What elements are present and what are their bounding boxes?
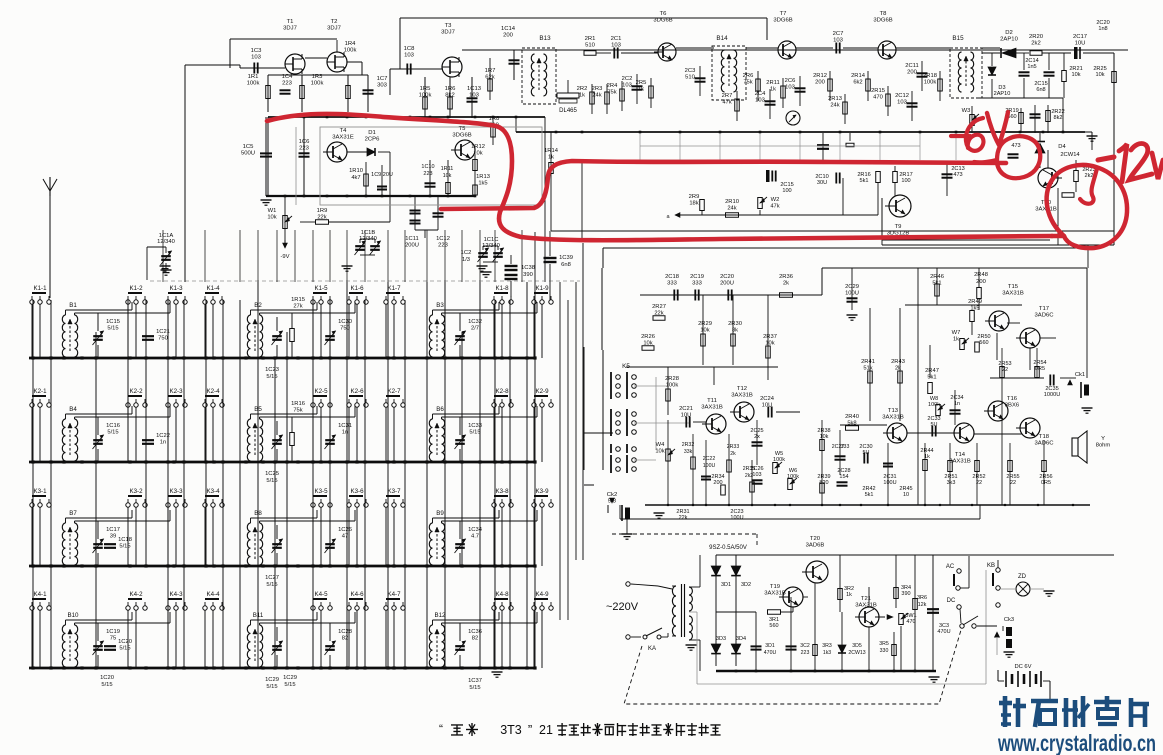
svg-text:K2-1: K2-1 xyxy=(33,388,47,395)
svg-text:-9V: -9V xyxy=(280,254,289,260)
svg-text:3D1: 3D1 xyxy=(765,643,775,649)
svg-text:T3: T3 xyxy=(445,23,453,29)
svg-text:2R56: 2R56 xyxy=(1039,474,1052,480)
svg-text:2C20: 2C20 xyxy=(1096,20,1109,26)
svg-text:K4-5: K4-5 xyxy=(314,591,328,598)
svg-text:2C15: 2C15 xyxy=(780,182,793,188)
svg-text:1C12: 1C12 xyxy=(436,236,450,242)
svg-text:K4-8: K4-8 xyxy=(495,591,509,598)
svg-text:2R39: 2R39 xyxy=(817,474,830,480)
svg-text:5k1: 5k1 xyxy=(865,492,874,498)
svg-text:2R2: 2R2 xyxy=(577,86,588,92)
svg-text:3D3: 3D3 xyxy=(716,636,726,642)
svg-text:T21: T21 xyxy=(861,596,871,602)
svg-text:2R11: 2R11 xyxy=(766,80,779,86)
svg-text:2R10: 2R10 xyxy=(725,199,739,205)
svg-text:KA: KA xyxy=(648,646,656,652)
svg-text:3AX31B: 3AX31B xyxy=(701,405,723,411)
svg-text:27k: 27k xyxy=(293,303,302,309)
svg-text:333: 333 xyxy=(692,280,702,286)
svg-text:D2: D2 xyxy=(1005,30,1013,36)
svg-text:1R10: 1R10 xyxy=(349,168,363,174)
svg-text:1R15: 1R15 xyxy=(291,297,305,303)
svg-text:1C29: 1C29 xyxy=(265,677,279,683)
svg-text:1C22: 1C22 xyxy=(156,433,170,439)
svg-text:5/15: 5/15 xyxy=(266,582,277,588)
svg-text:470: 470 xyxy=(873,94,883,100)
svg-text:T14: T14 xyxy=(955,452,966,458)
svg-text:1C5: 1C5 xyxy=(243,144,255,150)
svg-text:3AX31B: 3AX31B xyxy=(731,393,753,399)
svg-text:1C26: 1C26 xyxy=(338,527,352,533)
svg-text:510: 510 xyxy=(685,74,695,80)
svg-text:82: 82 xyxy=(472,635,478,641)
svg-text:K3-8: K3-8 xyxy=(495,488,509,495)
svg-text:T12: T12 xyxy=(737,386,747,392)
svg-text:K3-3: K3-3 xyxy=(169,488,183,495)
svg-text:D4: D4 xyxy=(1058,144,1066,150)
svg-text:6n8: 6n8 xyxy=(1036,87,1045,93)
svg-text:K1-3: K1-3 xyxy=(169,285,183,292)
svg-text:www.crystalradio.cn: www.crystalradio.cn xyxy=(997,730,1156,755)
svg-text:K2-5: K2-5 xyxy=(314,388,328,395)
svg-text:2R48: 2R48 xyxy=(974,272,988,278)
svg-text:2R27: 2R27 xyxy=(652,304,666,310)
svg-text:103: 103 xyxy=(404,53,415,59)
svg-text:2C33: 2C33 xyxy=(927,416,940,422)
svg-text:560: 560 xyxy=(979,340,988,346)
svg-text:2C11: 2C11 xyxy=(905,63,918,69)
svg-text:18k: 18k xyxy=(689,200,698,206)
svg-text:1R12: 1R12 xyxy=(471,144,485,150)
svg-text:22: 22 xyxy=(1010,480,1016,486)
svg-text:330: 330 xyxy=(880,648,889,654)
svg-text:1k: 1k xyxy=(846,592,852,598)
svg-text:1C16: 1C16 xyxy=(106,423,120,429)
svg-text:K2-7: K2-7 xyxy=(387,388,401,395)
svg-text:1C20: 1C20 xyxy=(100,675,114,681)
svg-text:1C21: 1C21 xyxy=(156,329,170,335)
svg-text:750: 750 xyxy=(158,335,168,341)
svg-text:2R17: 2R17 xyxy=(899,172,912,178)
svg-text:3R5: 3R5 xyxy=(879,641,889,647)
svg-text:2C35: 2C35 xyxy=(1045,386,1058,392)
svg-text:2R40: 2R40 xyxy=(845,414,859,420)
svg-text:2R42: 2R42 xyxy=(862,486,875,492)
svg-text:K2-3: K2-3 xyxy=(169,388,183,395)
svg-text:3R6: 3R6 xyxy=(917,595,927,601)
svg-text:2C3: 2C3 xyxy=(685,68,696,74)
svg-text:333: 333 xyxy=(667,280,677,286)
svg-text:K2-8: K2-8 xyxy=(495,388,509,395)
svg-text:8ohm: 8ohm xyxy=(1096,442,1111,448)
svg-text:100k: 100k xyxy=(924,79,937,85)
svg-text:2R5: 2R5 xyxy=(636,80,647,86)
svg-text:470U: 470U xyxy=(937,629,950,635)
svg-text:33k: 33k xyxy=(684,449,693,455)
svg-text:“: “ xyxy=(439,722,443,736)
svg-text:103: 103 xyxy=(785,84,795,90)
svg-text:1C7: 1C7 xyxy=(377,76,388,82)
svg-text:100U: 100U xyxy=(730,515,743,521)
svg-text:3AX31B: 3AX31B xyxy=(882,415,904,421)
svg-text:K3-7: K3-7 xyxy=(387,488,401,495)
svg-text:390: 390 xyxy=(523,272,533,278)
svg-text:2R45: 2R45 xyxy=(899,486,912,492)
svg-text:1C39: 1C39 xyxy=(559,255,573,261)
svg-text:2C13: 2C13 xyxy=(951,166,964,172)
svg-text:3R3: 3R3 xyxy=(822,643,832,649)
svg-text:2C2: 2C2 xyxy=(622,76,633,82)
svg-text:2R14: 2R14 xyxy=(851,73,866,79)
svg-text:3AX31B: 3AX31B xyxy=(855,603,877,609)
svg-text:Ck3: Ck3 xyxy=(1004,617,1014,623)
svg-text:2R29: 2R29 xyxy=(698,321,712,327)
svg-text:3DG6B: 3DG6B xyxy=(773,18,792,24)
svg-text:5/15: 5/15 xyxy=(107,429,118,435)
svg-text:K4-7: K4-7 xyxy=(387,591,401,598)
svg-text:1R4: 1R4 xyxy=(345,41,357,47)
svg-text:T20: T20 xyxy=(810,536,821,542)
svg-text:K3-6: K3-6 xyxy=(350,488,364,495)
svg-text:5k1: 5k1 xyxy=(927,374,936,380)
svg-text:100k: 100k xyxy=(928,402,940,408)
svg-text:103: 103 xyxy=(833,38,844,44)
svg-text:1C23: 1C23 xyxy=(265,367,279,373)
svg-text:1C28: 1C28 xyxy=(338,629,352,635)
svg-text:B8: B8 xyxy=(254,510,262,517)
svg-text:75k: 75k xyxy=(293,407,302,413)
svg-text:3BX6: 3BX6 xyxy=(1005,403,1020,409)
svg-text:K4-3: K4-3 xyxy=(169,591,183,598)
svg-text:3DJ7: 3DJ7 xyxy=(327,26,341,32)
svg-text:5/15: 5/15 xyxy=(284,682,295,688)
svg-text:22k: 22k xyxy=(679,515,688,521)
svg-text:D1: D1 xyxy=(368,130,376,136)
svg-text:2R43: 2R43 xyxy=(891,359,905,365)
svg-text:1R9: 1R9 xyxy=(317,208,328,214)
svg-text:10U: 10U xyxy=(1075,41,1086,47)
svg-text:1C3: 1C3 xyxy=(251,48,263,54)
svg-text:2CW14: 2CW14 xyxy=(1060,152,1080,158)
svg-text:1C14: 1C14 xyxy=(501,26,516,32)
svg-text:1n: 1n xyxy=(160,439,166,445)
svg-text:K1-8: K1-8 xyxy=(495,285,509,292)
svg-text:10k: 10k xyxy=(700,327,709,333)
svg-text:2k2: 2k2 xyxy=(1031,41,1041,47)
svg-text:473: 473 xyxy=(1011,143,1020,149)
svg-text:1000U: 1000U xyxy=(1044,392,1060,398)
svg-text:2R49: 2R49 xyxy=(968,299,982,305)
svg-text:D3: D3 xyxy=(998,85,1005,91)
svg-text:DC: DC xyxy=(947,598,956,604)
svg-text:2R32: 2R32 xyxy=(682,442,695,448)
svg-text:103: 103 xyxy=(752,472,761,478)
svg-text:2R9: 2R9 xyxy=(689,194,700,200)
svg-text:30U: 30U xyxy=(817,180,827,186)
svg-text:2R12: 2R12 xyxy=(813,73,827,79)
svg-text:200U: 200U xyxy=(720,280,734,286)
svg-text:100k: 100k xyxy=(311,81,324,87)
svg-text:2R22: 2R22 xyxy=(1051,109,1064,115)
svg-text:500U: 500U xyxy=(241,151,255,157)
svg-text:2C28: 2C28 xyxy=(837,468,850,474)
svg-text:223: 223 xyxy=(438,242,448,248)
svg-text:103: 103 xyxy=(251,55,262,61)
svg-text:T4: T4 xyxy=(340,128,348,134)
svg-text:3DJ7: 3DJ7 xyxy=(283,26,297,32)
svg-text:W7: W7 xyxy=(952,330,961,336)
svg-text:470U: 470U xyxy=(764,650,777,656)
svg-text:6n8: 6n8 xyxy=(561,262,571,268)
svg-text:B11: B11 xyxy=(253,612,264,619)
svg-text:2C24: 2C24 xyxy=(760,396,775,402)
svg-text:303: 303 xyxy=(377,83,388,89)
svg-text:1k5: 1k5 xyxy=(478,180,487,186)
svg-text:2C21: 2C21 xyxy=(679,406,693,412)
svg-text:2C10: 2C10 xyxy=(815,174,828,180)
svg-text:2C14: 2C14 xyxy=(1025,58,1038,64)
svg-text:2R21: 2R21 xyxy=(1069,66,1082,72)
svg-text:T2: T2 xyxy=(331,19,338,25)
svg-text:AC: AC xyxy=(946,564,955,570)
svg-text:333: 333 xyxy=(841,444,850,450)
svg-text:3D4: 3D4 xyxy=(736,636,746,642)
svg-text:2/7: 2/7 xyxy=(471,325,479,331)
svg-text:100: 100 xyxy=(901,178,910,184)
svg-text:W8: W8 xyxy=(930,396,938,402)
svg-text:B14: B14 xyxy=(716,35,728,42)
svg-text:2R20: 2R20 xyxy=(1029,34,1044,40)
svg-text:T16: T16 xyxy=(1007,396,1018,402)
svg-text:2C1: 2C1 xyxy=(611,36,622,42)
svg-text:B6: B6 xyxy=(436,406,444,413)
svg-text:10U: 10U xyxy=(762,402,773,408)
svg-text:Ck1: Ck1 xyxy=(1075,372,1085,378)
svg-text:223: 223 xyxy=(801,650,810,656)
svg-text:21: 21 xyxy=(539,723,553,737)
svg-text:T19: T19 xyxy=(770,584,780,590)
svg-text:2R47: 2R47 xyxy=(925,368,939,374)
svg-text:2R4: 2R4 xyxy=(607,83,618,89)
svg-text:2C6: 2C6 xyxy=(785,78,796,84)
svg-text:12/340: 12/340 xyxy=(157,239,175,245)
svg-text:2R26: 2R26 xyxy=(641,334,655,340)
svg-text:K1-1: K1-1 xyxy=(33,285,47,292)
svg-text:5/15: 5/15 xyxy=(119,543,130,549)
svg-text:2R37: 2R37 xyxy=(763,334,777,340)
svg-text:75: 75 xyxy=(110,635,116,641)
svg-text:154: 154 xyxy=(839,474,848,480)
svg-text:2C18: 2C18 xyxy=(665,274,679,280)
svg-text:W4: W4 xyxy=(656,442,665,448)
svg-text:103: 103 xyxy=(622,82,632,88)
svg-text:2AP10: 2AP10 xyxy=(1000,37,1018,43)
svg-text:4.7: 4.7 xyxy=(471,533,479,539)
svg-text:2R30: 2R30 xyxy=(728,321,742,327)
svg-text:1n5: 1n5 xyxy=(1027,64,1036,70)
svg-text:2C34: 2C34 xyxy=(950,395,963,401)
svg-text:K2-2: K2-2 xyxy=(129,388,143,395)
svg-text:3DG6B: 3DG6B xyxy=(873,18,892,24)
svg-text:2R3: 2R3 xyxy=(592,86,603,92)
svg-text:2R15: 2R15 xyxy=(871,88,885,94)
svg-text:1R16: 1R16 xyxy=(291,401,305,407)
svg-text:5/15: 5/15 xyxy=(469,685,480,691)
svg-text:1C34: 1C34 xyxy=(468,527,483,533)
svg-text:2R50: 2R50 xyxy=(977,334,990,340)
svg-text:K3-1: K3-1 xyxy=(33,488,47,495)
svg-text:2R31: 2R31 xyxy=(676,509,689,515)
svg-text:K4-1: K4-1 xyxy=(33,591,47,598)
svg-text:5/15: 5/15 xyxy=(107,325,118,331)
svg-text:Ck2: Ck2 xyxy=(607,492,617,498)
svg-text:3D2: 3D2 xyxy=(741,582,751,588)
svg-text:3AX31B: 3AX31B xyxy=(1002,291,1024,297)
svg-text:8k2: 8k2 xyxy=(1053,115,1062,121)
svg-text:2C26: 2C26 xyxy=(750,466,763,472)
svg-text:2C17: 2C17 xyxy=(1073,34,1087,40)
svg-text:10k: 10k xyxy=(443,173,452,179)
svg-text:3R2: 3R2 xyxy=(844,586,854,592)
svg-text:6k2: 6k2 xyxy=(853,79,862,85)
svg-text:2R54: 2R54 xyxy=(1033,360,1046,366)
svg-text:B1: B1 xyxy=(69,302,77,309)
svg-text:75k: 75k xyxy=(607,89,616,95)
svg-text:560: 560 xyxy=(769,623,778,629)
svg-text:3D1: 3D1 xyxy=(721,582,731,588)
svg-text:5k1: 5k1 xyxy=(859,178,868,184)
svg-text:K3-9: K3-9 xyxy=(535,488,549,495)
svg-text:10k: 10k xyxy=(655,448,664,454)
svg-text:2R44: 2R44 xyxy=(920,448,933,454)
svg-text:1C38: 1C38 xyxy=(521,265,535,271)
svg-text:B10: B10 xyxy=(67,612,79,619)
svg-text:2C12: 2C12 xyxy=(895,93,909,99)
svg-text:2R51: 2R51 xyxy=(944,474,957,480)
svg-text:2R7: 2R7 xyxy=(722,93,733,99)
svg-text:1C13: 1C13 xyxy=(467,86,482,92)
svg-text:200U: 200U xyxy=(405,242,419,248)
svg-text:100U: 100U xyxy=(703,463,716,469)
svg-text:5/15: 5/15 xyxy=(266,684,277,690)
svg-text:1R1: 1R1 xyxy=(248,74,259,80)
svg-text:2C20: 2C20 xyxy=(720,274,734,280)
svg-text:~220V: ~220V xyxy=(606,601,639,613)
svg-text:2C30: 2C30 xyxy=(859,444,872,450)
svg-text:2R16: 2R16 xyxy=(857,172,870,178)
svg-text:B2: B2 xyxy=(254,302,262,309)
svg-text:5/15: 5/15 xyxy=(266,478,277,484)
svg-text:1C37: 1C37 xyxy=(468,678,482,684)
svg-text:1C25: 1C25 xyxy=(265,471,279,477)
svg-text:22: 22 xyxy=(1002,367,1008,373)
svg-text:1C29: 1C29 xyxy=(283,675,297,681)
svg-text:1k: 1k xyxy=(770,86,776,92)
svg-text:T18: T18 xyxy=(1039,434,1050,440)
svg-text:B3: B3 xyxy=(436,302,444,309)
svg-text:4k7: 4k7 xyxy=(351,175,360,181)
svg-text:390: 390 xyxy=(901,591,910,597)
svg-text:3AX31E: 3AX31E xyxy=(332,135,354,141)
svg-text:1R13: 1R13 xyxy=(476,174,490,180)
svg-text:3D5: 3D5 xyxy=(852,643,862,649)
svg-text:75k: 75k xyxy=(743,79,752,85)
svg-text:510: 510 xyxy=(585,43,596,49)
svg-text:2R25: 2R25 xyxy=(1093,66,1106,72)
svg-text:DC 6V: DC 6V xyxy=(1014,664,1031,670)
svg-text:K3-4: K3-4 xyxy=(206,488,220,495)
svg-text:T17: T17 xyxy=(1039,306,1049,312)
svg-text:1C11: 1C11 xyxy=(405,236,418,242)
svg-text:473: 473 xyxy=(953,172,962,178)
svg-text:1k3: 1k3 xyxy=(823,650,831,656)
svg-text:24k: 24k xyxy=(592,92,601,98)
svg-text:T6: T6 xyxy=(660,11,668,17)
svg-text:100k: 100k xyxy=(787,474,799,480)
svg-text:2C19: 2C19 xyxy=(690,274,704,280)
svg-text:K5: K5 xyxy=(622,363,630,370)
svg-text:1C33: 1C33 xyxy=(468,423,482,429)
svg-text:2R34: 2R34 xyxy=(711,474,724,480)
svg-text:K4-4: K4-4 xyxy=(206,591,220,598)
svg-text:3DG6B: 3DG6B xyxy=(452,133,471,139)
svg-text:47k: 47k xyxy=(722,99,731,105)
svg-text:2CW13: 2CW13 xyxy=(848,650,865,656)
svg-text:3R1: 3R1 xyxy=(769,617,779,623)
svg-text:5/15: 5/15 xyxy=(101,682,112,688)
svg-text:2C31: 2C31 xyxy=(883,474,896,480)
svg-text:2k: 2k xyxy=(783,280,789,286)
svg-text:200: 200 xyxy=(976,279,986,285)
svg-text:5/15: 5/15 xyxy=(266,374,277,380)
svg-text:2AP10: 2AP10 xyxy=(994,91,1011,97)
svg-text:3AX31B: 3AX31B xyxy=(764,591,786,597)
svg-text:1k: 1k xyxy=(638,86,644,92)
svg-text:1C27: 1C27 xyxy=(265,575,279,581)
svg-text:3DJ7: 3DJ7 xyxy=(441,30,455,36)
svg-text:0R5: 0R5 xyxy=(1041,480,1051,486)
svg-text:1n: 1n xyxy=(342,429,348,435)
svg-text:3C3: 3C3 xyxy=(939,623,949,629)
svg-text:1/3: 1/3 xyxy=(462,257,470,263)
svg-text:47k: 47k xyxy=(770,203,779,209)
svg-text:B7: B7 xyxy=(69,510,77,517)
svg-text:103: 103 xyxy=(611,43,622,49)
svg-text:1k: 1k xyxy=(953,336,959,342)
svg-text:1C30: 1C30 xyxy=(338,319,352,325)
svg-text:1C17: 1C17 xyxy=(106,527,120,533)
svg-text:B5: B5 xyxy=(254,406,262,413)
svg-text:K4-2: K4-2 xyxy=(129,591,143,598)
svg-text:2k: 2k xyxy=(730,451,736,457)
svg-text:T13: T13 xyxy=(888,408,899,414)
svg-text:1n8: 1n8 xyxy=(1098,26,1107,32)
svg-text:1C19: 1C19 xyxy=(106,629,120,635)
svg-text:2C22: 2C22 xyxy=(703,456,716,462)
svg-text:K1-6: K1-6 xyxy=(350,285,364,292)
svg-text:B4: B4 xyxy=(69,406,77,413)
svg-text:100k: 100k xyxy=(247,81,260,87)
svg-text:3AD6B: 3AD6B xyxy=(806,543,825,549)
svg-text:9SZ-0.5A/50V: 9SZ-0.5A/50V xyxy=(709,545,747,551)
svg-text:10k: 10k xyxy=(1071,72,1080,78)
svg-text:2C23: 2C23 xyxy=(730,509,743,515)
svg-text:2R36: 2R36 xyxy=(779,274,793,280)
svg-text:1C10: 1C10 xyxy=(421,164,434,170)
svg-text:K1-5: K1-5 xyxy=(314,285,328,292)
svg-text:100k: 100k xyxy=(344,48,357,54)
